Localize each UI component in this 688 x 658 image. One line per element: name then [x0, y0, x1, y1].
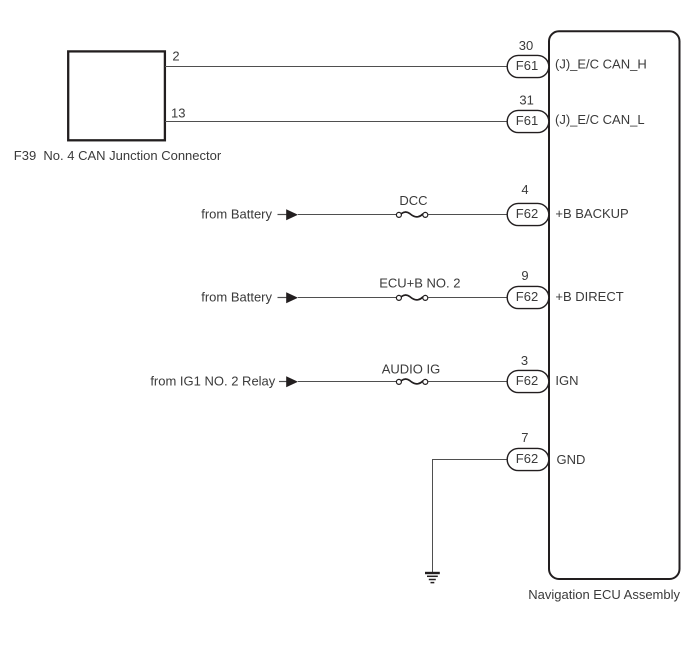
fuse AUDIO IG: [396, 379, 427, 384]
svg-text:2: 2: [172, 49, 179, 64]
svg-text:IGN: IGN: [555, 373, 578, 388]
svg-text:F62: F62: [516, 451, 538, 466]
fuse ECU+B NO. 2: [396, 295, 427, 300]
svg-text:4: 4: [521, 182, 528, 197]
wire: fuse AUDIO IG to F62 pin 3: [428, 381, 507, 383]
wire: relay arrow to fuse AUDIO IG: [298, 381, 396, 383]
svg-text:31: 31: [519, 92, 533, 107]
svg-text:from Battery: from Battery: [201, 290, 272, 305]
svg-text:13: 13: [171, 106, 185, 121]
svg-text:AUDIO IG: AUDIO IG: [382, 362, 441, 377]
wire: fuse DCC to F62 pin 4: [428, 214, 507, 216]
junction connector F39 box: [68, 51, 165, 140]
connector F61 pin 30: [507, 55, 549, 77]
wire: F39 pin 2 to F61 pin 30: [165, 66, 507, 68]
svg-text:(J)_E/C CAN_L: (J)_E/C CAN_L: [555, 112, 645, 127]
connector F62 pin 3: [507, 370, 549, 392]
svg-text:+B BACKUP: +B BACKUP: [555, 206, 628, 221]
svg-text:7: 7: [521, 430, 528, 445]
svg-text:GND: GND: [557, 452, 586, 467]
svg-text:DCC: DCC: [399, 193, 427, 208]
svg-text:from IG1 NO. 2 Relay: from IG1 NO. 2 Relay: [150, 374, 275, 389]
arrow: battery feed row 1: [278, 209, 299, 220]
svg-text:F39 No. 4 CAN Junction Connec: F39 No. 4 CAN Junction Connector: [14, 148, 222, 163]
wire: battery arrow to fuse DCC: [298, 214, 396, 216]
svg-text:F62: F62: [516, 289, 538, 304]
fuse DCC: [396, 212, 427, 217]
svg-text:3: 3: [521, 353, 528, 368]
wire: battery arrow to fuse ECU+B NO. 2: [298, 297, 396, 299]
navigation ECU assembly box: [549, 31, 680, 579]
arrow: battery feed row 2: [278, 292, 299, 303]
ground: [425, 573, 440, 583]
svg-text:F61: F61: [516, 113, 538, 128]
svg-text:9: 9: [521, 268, 528, 283]
wire: fuse ECU+B NO. 2 to F62 pin 9: [428, 297, 507, 299]
svg-text:ECU+B NO. 2: ECU+B NO. 2: [379, 275, 460, 290]
svg-text:from Battery: from Battery: [201, 207, 272, 222]
svg-text:+B DIRECT: +B DIRECT: [555, 289, 623, 304]
connector F61 pin 31: [507, 110, 549, 132]
svg-text:30: 30: [519, 38, 533, 53]
svg-text:F61: F61: [516, 58, 538, 73]
connector F62 pin 4: [507, 203, 549, 225]
connector F62 pin 9: [507, 286, 549, 308]
svg-text:Navigation ECU Assembly: Navigation ECU Assembly: [528, 587, 680, 602]
svg-text:F62: F62: [516, 373, 538, 388]
svg-text:(J)_E/C CAN_H: (J)_E/C CAN_H: [555, 57, 647, 72]
svg-text:F62: F62: [516, 206, 538, 221]
wire: F62 pin 7 to ground drop: [433, 460, 508, 573]
wire: F39 pin 13 to F61 pin 31: [165, 121, 507, 123]
arrow: IG1 relay feed row 3: [279, 376, 298, 387]
connector F62 pin 7: [507, 448, 549, 470]
